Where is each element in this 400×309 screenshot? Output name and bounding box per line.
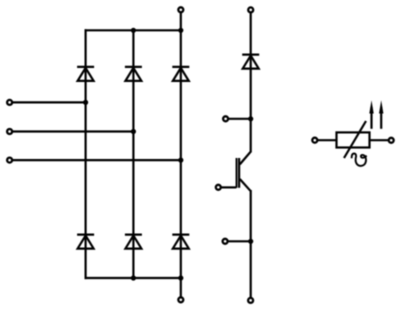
terminal AC2 (7, 129, 12, 134)
node brake mid1 (248, 116, 253, 121)
terminal AC1 (7, 100, 12, 105)
terminal thermistor left (312, 138, 317, 143)
diode D3 (125, 67, 142, 81)
wire column 1 (84, 29, 86, 279)
node top bus col2 (131, 28, 136, 33)
wire gate (221, 186, 236, 188)
wire column 3 (180, 30, 182, 278)
wire column 2 (132, 30, 134, 278)
terminal brake mid1 (223, 116, 228, 121)
wire thermistor right (370, 139, 389, 141)
node bottom bus col2 (131, 275, 136, 280)
terminal DC- (178, 297, 183, 302)
node AC3 col3 (178, 158, 183, 163)
resistor R1 (thermistor body) (337, 132, 370, 147)
node bottom bus col3 (178, 275, 183, 280)
diode D2 (172, 235, 189, 249)
wire AC3 (13, 159, 181, 161)
transistor Q1 (IGBT) (237, 152, 251, 191)
terminal gate (216, 185, 221, 190)
wire brake upper (250, 13, 252, 153)
diode D5 (172, 67, 189, 81)
diode D7 (242, 55, 259, 69)
node AC1 col1 (83, 100, 88, 105)
wire bottom bus (85, 277, 181, 279)
wire DC+ riser (180, 13, 182, 31)
wire brake mid2 (228, 240, 251, 242)
terminal brake mid2 (223, 239, 228, 244)
arrow up 1 (369, 100, 373, 129)
diode D6 (125, 235, 142, 249)
wire brake mid1 (229, 118, 251, 120)
terminal brake top (248, 7, 253, 12)
node top bus col3 (178, 28, 183, 33)
thermistor diagonal stroke (344, 121, 366, 158)
node AC2 col2 (131, 129, 136, 134)
wire thermistor left (318, 139, 337, 141)
node brake mid2 (248, 239, 253, 244)
diode D1 (77, 67, 94, 81)
diode D4 (77, 235, 94, 249)
terminal AC3 (7, 158, 12, 163)
wire top bus (85, 29, 181, 31)
terminal DC+ (178, 7, 183, 12)
wire AC1 (13, 101, 86, 103)
thermistor theta symbol (352, 154, 367, 166)
terminal brake bottom (248, 298, 253, 303)
wire brake lower (250, 190, 252, 297)
wire AC2 (13, 130, 134, 132)
arrow up 2 (379, 100, 383, 129)
wire DC- riser (180, 278, 182, 297)
terminal thermistor right (389, 138, 394, 143)
